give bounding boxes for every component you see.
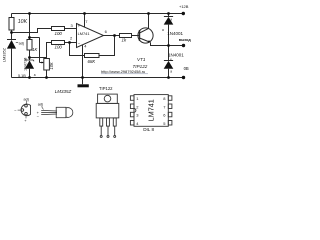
wire feedback down from pin2 node	[70, 43, 85, 56]
LM335Z TO92 side view	[41, 107, 73, 117]
label adj (bottom view)	[24, 97, 29, 104]
svg-text:TIP122: TIP122	[99, 86, 113, 91]
wire zener node to pot column	[30, 57, 47, 59]
svg-text:1N4733: 1N4733	[24, 58, 28, 71]
resistor R6 68K body	[85, 54, 100, 58]
svg-text:LM741: LM741	[147, 99, 156, 121]
node rail-pin7	[83, 12, 86, 15]
label minus (bottom view)	[14, 108, 20, 113]
label adj arrow LM335	[16, 41, 24, 45]
transistor VT1 TIP122	[138, 28, 153, 43]
diode D1 1N4001	[164, 14, 174, 46]
svg-text:+: +	[24, 118, 27, 123]
wire pot bottom lead	[46, 70, 48, 78]
svg-text:5: 5	[163, 121, 166, 126]
pot wiper arrow	[40, 62, 44, 64]
svg-text:7: 7	[163, 104, 166, 109]
svg-text:6: 6	[105, 29, 108, 34]
svg-text:выход: выход	[179, 38, 192, 42]
svg-text:1k: 1k	[122, 38, 127, 43]
wire pot wiper to ref node	[39, 38, 41, 63]
svg-text:adj: adj	[38, 103, 43, 107]
svg-text:3: 3	[71, 23, 74, 28]
node ground rail	[81, 76, 84, 79]
wire R3 bottom to zener node	[29, 50, 31, 60]
node zener top	[28, 56, 31, 59]
svg-text:LM741: LM741	[78, 31, 90, 36]
zener D3 1N4733	[25, 59, 34, 78]
resistor R3 1K body	[27, 40, 32, 51]
DIL8 pin numbers right	[163, 96, 166, 126]
svg-text:10К: 10К	[49, 62, 54, 70]
svg-text:1: 1	[136, 96, 139, 101]
resistor R7 1k body	[120, 34, 132, 38]
svg-text:−: −	[14, 108, 17, 113]
ground symbol	[78, 78, 89, 88]
svg-text:−: −	[78, 41, 81, 46]
label adj (side view)	[38, 103, 44, 110]
wire emitter to output node	[151, 42, 169, 45]
wire feedback right side	[99, 36, 115, 56]
op-amp U1 LM741 triangle	[77, 24, 104, 48]
wire pin4 to ground rail	[82, 45, 84, 78]
wire collector to rail	[148, 14, 150, 29]
svg-text:adj: adj	[24, 97, 29, 101]
resistor R5 100 body	[52, 41, 65, 45]
node pin2 feedback tap	[68, 41, 71, 44]
svg-text:а: а	[170, 70, 172, 74]
svg-text:adj: adj	[19, 41, 24, 45]
svg-text:а: а	[162, 28, 164, 32]
svg-text:LM335Z: LM335Z	[55, 89, 72, 94]
IC U1 DIL8 package	[130, 95, 172, 127]
resistor R2 100 body	[52, 27, 65, 31]
wire R5 left lead down to pot top	[47, 43, 52, 59]
wire top +12V rail	[12, 13, 184, 15]
label plus (bottom view)	[24, 115, 27, 122]
svg-text:1N4001: 1N4001	[167, 31, 183, 36]
node rail-R3	[28, 12, 31, 15]
node ref junction	[28, 36, 31, 39]
node +12V terminal	[182, 12, 185, 15]
wire sensor node to LM335	[11, 34, 13, 40]
svg-text:2: 2	[136, 104, 139, 109]
svg-text:100: 100	[55, 31, 63, 36]
svg-text:к: к	[171, 17, 173, 21]
node rail-D1	[167, 12, 170, 15]
LM335Z TO92 bottom view	[21, 104, 30, 116]
svg-text:LM335Z: LM335Z	[3, 47, 7, 62]
wire R1 bottom lead	[11, 30, 13, 34]
node rail-collector	[147, 12, 150, 15]
node output terminal	[182, 44, 185, 47]
node 0V terminal	[182, 76, 185, 79]
svg-text:6: 6	[163, 113, 166, 118]
wire output node to terminal	[169, 45, 184, 47]
node pot bottom rail	[45, 76, 48, 79]
potentiometer R4 10K body	[44, 59, 50, 71]
wire bottom 0V rail	[12, 77, 184, 79]
svg-text:а: а	[34, 73, 36, 77]
wire R2 to pin3	[65, 28, 77, 30]
wire R7 to base	[132, 35, 140, 37]
svg-text:2: 2	[70, 36, 73, 41]
svg-text:68К: 68К	[88, 59, 96, 64]
DIL8 pin numbers left	[136, 96, 139, 126]
wire pin7 to rail	[84, 14, 86, 28]
svg-text:http://www.298792458.ru: http://www.298792458.ru	[101, 69, 145, 74]
node zener bottom rail	[28, 76, 31, 79]
node sensor junction	[10, 31, 13, 34]
resistor R1 10K body	[9, 18, 14, 31]
svg-text:10K: 10K	[18, 19, 28, 25]
svg-text:0В: 0В	[184, 66, 189, 71]
node output feedback tap	[113, 34, 116, 37]
svg-text:−: −	[37, 114, 40, 119]
junction dots	[10, 12, 185, 79]
TIP122 TO220 package	[96, 94, 119, 137]
wire R5 to pin2	[65, 42, 77, 44]
node emitter-diode junction	[167, 44, 170, 47]
LM335Z sensor diode symbol	[7, 40, 16, 78]
svg-text:1K: 1K	[32, 47, 37, 52]
wire ref branch vertical from rail	[29, 14, 31, 38]
wire sensor node to opamp pin3	[12, 29, 52, 33]
wire left branch top stub	[11, 14, 13, 18]
diode D2 1N4001	[164, 46, 174, 78]
svg-text:+: +	[78, 24, 81, 29]
wire ref node horizontal	[30, 37, 40, 39]
svg-text:3: 3	[136, 113, 139, 118]
svg-text:8: 8	[163, 96, 166, 101]
svg-text:100: 100	[55, 45, 63, 50]
svg-text:4: 4	[84, 43, 87, 48]
svg-text:7: 7	[85, 19, 88, 24]
svg-text:DIL 8: DIL 8	[143, 127, 154, 132]
svg-text:4: 4	[136, 121, 139, 126]
wire output pin6	[103, 35, 120, 37]
svg-text:5,1В: 5,1В	[18, 74, 26, 78]
svg-text:+12В: +12В	[179, 4, 189, 9]
node D2 bottom rail	[167, 76, 170, 79]
resistor R3 1K leads	[29, 38, 31, 40]
svg-text:VT1: VT1	[137, 57, 146, 62]
